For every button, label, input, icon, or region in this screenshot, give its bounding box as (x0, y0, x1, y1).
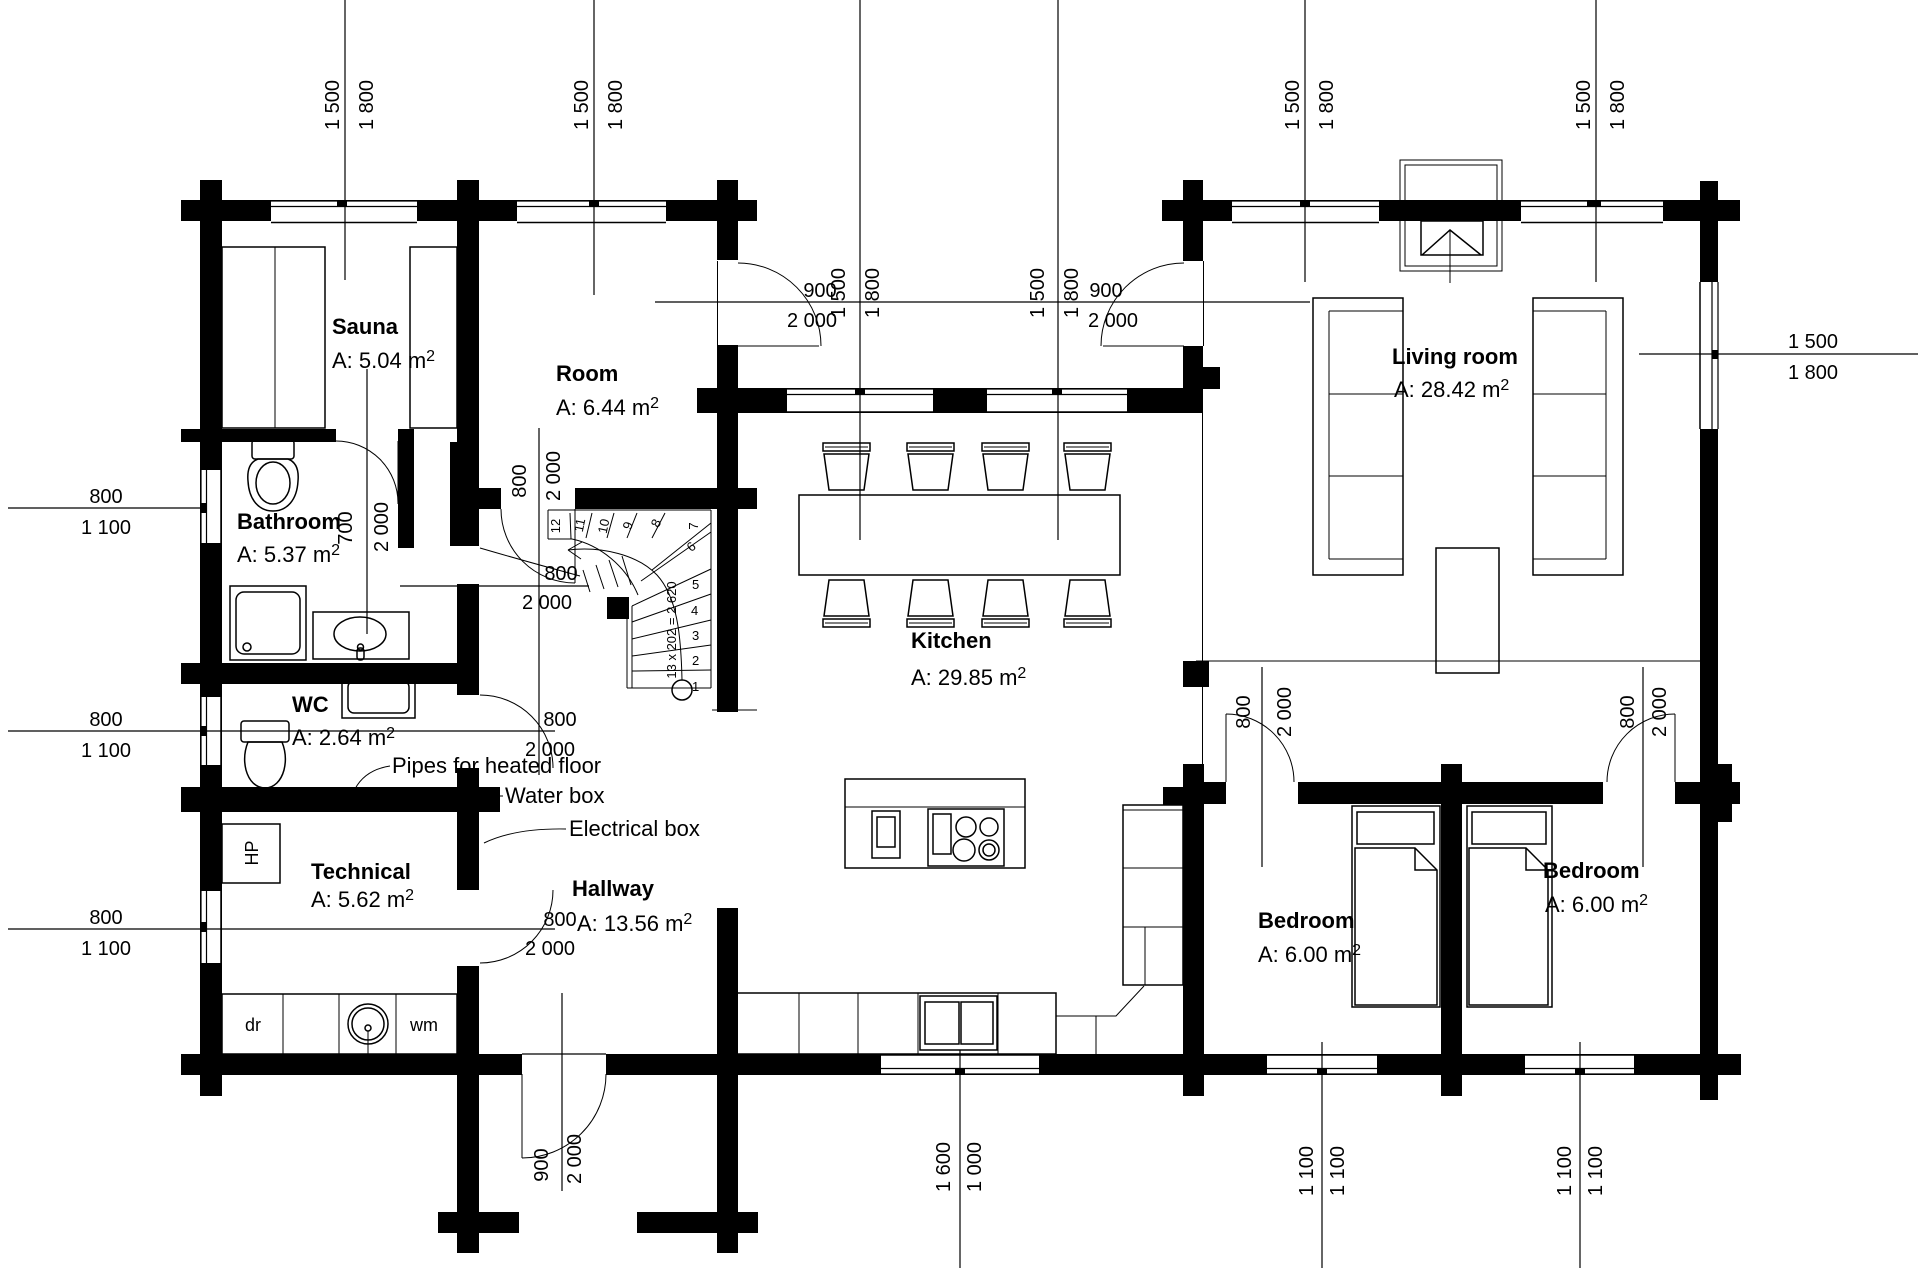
svg-text:2 000: 2 000 (1274, 687, 1296, 737)
kitchen counter corner piece (1056, 986, 1144, 1054)
stairs treads right run (632, 569, 711, 671)
wall: technical right wall lower + porch post (457, 966, 479, 1253)
wall: top exterior right block (1162, 200, 1740, 221)
wall: bedroom top wall segment B (1298, 782, 1603, 804)
fireplace (1400, 160, 1502, 283)
chair top 4 (1064, 443, 1111, 490)
toilet bathroom (248, 440, 298, 511)
DOORS (336, 261, 1675, 1158)
wall: bathroom divider lower (450, 442, 479, 546)
svg-text:1 100: 1 100 (81, 517, 131, 539)
window bedroom 2 (bottom wall) (1525, 1055, 1634, 1074)
STAIRS (548, 509, 711, 700)
wall: bathroom-WC wall (181, 663, 457, 684)
svg-text:dr: dr (245, 1015, 261, 1035)
door technical (480, 890, 553, 963)
window living room (right wall) (1699, 282, 1718, 429)
FURNITURE (222, 160, 1623, 1054)
svg-text:1 100: 1 100 (1327, 1146, 1349, 1196)
window WC (left wall) (201, 697, 221, 765)
wall: bottom exterior (181, 1054, 1741, 1075)
svg-text:WC: WC (292, 692, 329, 717)
island stove (928, 809, 1004, 866)
wall: hall/kitchen wall lower + porch post (717, 908, 738, 1253)
dim line window lr2 (1595, 0, 1597, 282)
svg-text:A: 29.85 m2: A: 29.85 m2 (911, 665, 1026, 690)
wall: porch right wall upper (1183, 221, 1203, 261)
wall: WC-technical wall (181, 787, 500, 812)
WINDOWS (201, 201, 1718, 1074)
svg-text:13 x 202 = 2 620: 13 x 202 = 2 620 (664, 581, 679, 678)
svg-text:A: 13.56 m2: A: 13.56 m2 (577, 911, 692, 936)
svg-text:2 000: 2 000 (1649, 687, 1671, 737)
stairs walk line (568, 549, 682, 680)
door leaf room at stairs (574, 509, 576, 583)
svg-text:Bedroom: Bedroom (1543, 858, 1640, 883)
stairs treads top run (570, 513, 665, 539)
kitchen tall cabinets (1123, 805, 1183, 985)
svg-text:800: 800 (89, 486, 122, 508)
wall: porch right face line (1203, 261, 1205, 346)
svg-text:2 000: 2 000 (525, 938, 575, 960)
svg-text:900: 900 (1089, 280, 1122, 302)
door room at stairs (501, 509, 575, 583)
wall: hall/kitchen wall top segment (717, 180, 738, 260)
wall: bedroom top wall segment C (1675, 782, 1740, 804)
dim line bedroom2 window (1579, 1042, 1581, 1268)
svg-text:Room: Room (556, 361, 618, 386)
dim line window room (593, 0, 595, 295)
svg-text:Bedroom: Bedroom (1258, 908, 1355, 933)
wall: kitchen top wall (697, 388, 1203, 413)
dim line bedroom2 door (1642, 667, 1644, 867)
svg-text:1 800: 1 800 (605, 80, 627, 130)
wall: kitchen/living junction square (1183, 661, 1209, 687)
svg-text:A: 6.00 m2: A: 6.00 m2 (1545, 892, 1648, 917)
svg-text:2: 2 (692, 653, 699, 668)
svg-text:900: 900 (531, 1148, 553, 1181)
svg-text:800: 800 (89, 907, 122, 929)
dim line bedroom1 window (1321, 1042, 1323, 1268)
dim line kitchen bottom window (959, 1050, 961, 1268)
wall: sauna/room divider (457, 180, 479, 488)
chair bottom 1 (823, 580, 870, 627)
stairs walk arrow (568, 542, 582, 559)
svg-text:800: 800 (509, 464, 531, 497)
open-plan boundary vertical (1202, 413, 1204, 764)
corner X bottom-left (201, 1054, 222, 1075)
wall: hall/kitchen wall mid segment (717, 345, 738, 712)
dim line left window WC (8, 730, 555, 732)
svg-text:Pipes for heated floor: Pipes for heated floor (392, 753, 601, 778)
wall: left exterior (200, 180, 222, 1096)
svg-text:1 600: 1 600 (933, 1142, 955, 1192)
svg-text:2 000: 2 000 (371, 502, 393, 552)
svg-text:5: 5 (692, 577, 699, 592)
dim line porch doors (655, 301, 1310, 303)
svg-text:1 800: 1 800 (1316, 80, 1338, 130)
wall: stair newel stub (607, 597, 629, 619)
svg-text:1 500: 1 500 (1788, 331, 1838, 353)
stairs start circle (672, 680, 692, 700)
svg-text:A: 5.37 m2: A: 5.37 m2 (237, 542, 340, 567)
svg-text:1 800: 1 800 (356, 80, 378, 130)
open-plan boundary horizontal (1196, 660, 1700, 662)
wall: porch crossbar right (637, 1212, 758, 1233)
chair bottom 3 (982, 580, 1029, 627)
svg-text:1 100: 1 100 (1554, 1146, 1576, 1196)
svg-text:1 100: 1 100 (81, 938, 131, 960)
svg-text:A: 6.44 m2: A: 6.44 m2 (556, 395, 659, 420)
svg-text:1 800: 1 800 (1607, 80, 1629, 130)
dim line bedroom1 door (1261, 667, 1263, 867)
svg-text:800: 800 (89, 709, 122, 731)
sauna bench right (410, 247, 457, 428)
door bedroom 2 (1607, 714, 1675, 782)
svg-text:7: 7 (686, 522, 701, 529)
svg-text:4: 4 (691, 603, 698, 618)
svg-text:1 000: 1 000 (964, 1142, 986, 1192)
door porch right (to Living room) (1101, 263, 1184, 346)
svg-text:Bathroom: Bathroom (237, 509, 341, 534)
svg-text:1: 1 (692, 679, 699, 694)
svg-text:A: 5.04 m2: A: 5.04 m2 (332, 348, 435, 373)
svg-text:1 500: 1 500 (322, 80, 344, 130)
wall: porch right log stub (1203, 367, 1220, 389)
svg-text:2 000: 2 000 (543, 451, 565, 501)
door bathroom (shallow arc) (480, 548, 580, 576)
wall cap line (712, 709, 757, 711)
wall: porch right wall lower (1183, 346, 1203, 413)
wall: technical right wall mid (457, 768, 479, 890)
svg-text:800: 800 (1617, 695, 1639, 728)
svg-text:A: 5.62 m2: A: 5.62 m2 (311, 887, 414, 912)
HP heat pump (222, 824, 280, 883)
wall: bedroom divider (1441, 764, 1462, 1096)
svg-text:2 000: 2 000 (1088, 310, 1138, 332)
svg-text:1 100: 1 100 (1585, 1146, 1607, 1196)
wall: stairs top wall (575, 488, 757, 509)
kitchen counter bottom (737, 993, 1056, 1054)
svg-text:1 800: 1 800 (862, 268, 884, 318)
dim line right window (1639, 353, 1918, 355)
stairs outline (548, 510, 711, 688)
svg-text:1 500: 1 500 (1573, 80, 1595, 130)
stairs fan inner edge (572, 539, 638, 595)
window living room left (top wall) (1232, 201, 1379, 223)
window kitchen (bottom wall) (881, 1055, 1039, 1074)
coffee table (1436, 548, 1499, 673)
stairs winder diagonals (641, 523, 711, 581)
dim line kitchen window left (859, 0, 861, 540)
svg-text:10: 10 (595, 517, 613, 534)
dim line window lr1 (1304, 0, 1306, 282)
chair bottom 2 (907, 580, 954, 627)
stairs winder ticks (583, 556, 631, 592)
svg-text:1 100: 1 100 (1296, 1146, 1318, 1196)
technical counter dr/wm (222, 994, 457, 1054)
window kitchen wall right (987, 389, 1127, 412)
svg-text:A: 2.64 m2: A: 2.64 m2 (292, 725, 395, 750)
svg-text:wm: wm (409, 1015, 438, 1035)
dim line bathroom door 700 (366, 369, 368, 634)
svg-text:Technical: Technical (311, 859, 411, 884)
svg-text:800: 800 (543, 709, 576, 731)
svg-text:800: 800 (543, 909, 576, 931)
wall: porch right log bar (1183, 180, 1203, 222)
wall: kitchen/bedroom wall (1183, 764, 1204, 1096)
svg-text:12: 12 (548, 519, 563, 533)
sink WC (342, 668, 415, 718)
window sauna (top wall) (271, 201, 417, 223)
corner X top-left (201, 200, 222, 221)
svg-text:Kitchen: Kitchen (911, 628, 992, 653)
chair top 1 (823, 443, 870, 490)
dining table (799, 495, 1120, 575)
kitchen island (845, 779, 1025, 868)
toilet WC (241, 721, 289, 788)
svg-text:1 800: 1 800 (1788, 362, 1838, 384)
wall: right exterior (1700, 181, 1718, 1100)
svg-text:800: 800 (544, 563, 577, 585)
door bedroom 1 (1226, 714, 1294, 782)
wall: bathroom right stub (398, 429, 414, 548)
wall: sauna-bathroom wall (181, 429, 336, 442)
chair top 3 (982, 443, 1029, 490)
bed 1 (1352, 806, 1440, 1007)
window bedroom 1 (bottom wall) (1267, 1055, 1377, 1074)
svg-text:Living room: Living room (1392, 344, 1518, 369)
window living room right (top wall) (1521, 201, 1663, 223)
shower bathroom (230, 586, 306, 660)
island sink (872, 811, 900, 858)
svg-text:Electrical box: Electrical box (569, 816, 700, 841)
WALLS (181, 180, 1741, 1253)
sofa left (1313, 298, 1403, 575)
svg-text:A: 28.42 m2: A: 28.42 m2 (1394, 377, 1509, 402)
dim line front door (561, 993, 563, 1191)
svg-text:Water box: Water box (505, 783, 604, 808)
dim line stairs door horizontal (400, 585, 589, 587)
svg-text:Hallway: Hallway (572, 876, 655, 901)
wall: technical right wall upper (457, 584, 479, 695)
door sauna (336, 441, 398, 504)
wall: porch crossbar left (438, 1212, 519, 1233)
svg-text:3: 3 (692, 628, 699, 643)
door porch left (to Room) (718, 261, 822, 346)
svg-text:2 000: 2 000 (564, 1134, 586, 1184)
dim line kitchen window right (1057, 0, 1059, 540)
dim line left window technical (8, 928, 555, 930)
sofa right (1533, 298, 1623, 575)
dim line left window bathroom (8, 507, 201, 509)
window technical (left wall) (201, 891, 221, 963)
wall: bedroom top wall segment A (1183, 782, 1226, 804)
svg-text:1 500: 1 500 (1027, 268, 1049, 318)
svg-text:1 500: 1 500 (571, 80, 593, 130)
svg-text:Sauna: Sauna (332, 314, 399, 339)
sauna bench left (222, 247, 325, 428)
sink bathroom (313, 612, 409, 660)
svg-text:2 000: 2 000 (522, 592, 572, 614)
wall: right wall log bar at bedroom junction (1711, 764, 1732, 822)
dim line window sauna (344, 0, 346, 280)
svg-text:1 500: 1 500 (1282, 80, 1304, 130)
wall: top exterior left block (181, 200, 757, 221)
svg-text:800: 800 (1233, 695, 1255, 728)
window bathroom (left wall) (201, 470, 221, 543)
window room (top wall) (517, 201, 666, 223)
kitchen sink bottom (920, 996, 997, 1050)
svg-text:2 000: 2 000 (787, 310, 837, 332)
door front entrance (522, 1054, 606, 1158)
svg-text:1 800: 1 800 (1061, 268, 1083, 318)
svg-text:1 100: 1 100 (81, 740, 131, 762)
svg-text:900: 900 (803, 280, 836, 302)
wall: bedroom wall stub left (1163, 787, 1183, 805)
svg-text:A: 6.00 m2: A: 6.00 m2 (1258, 942, 1361, 967)
chair top 2 (907, 443, 954, 490)
chair bottom 4 (1064, 580, 1111, 627)
dim line room door 800 vertical (538, 428, 540, 775)
wall: stairs door jamb (479, 488, 501, 509)
bed 2 (1467, 806, 1552, 1007)
window kitchen wall left (787, 389, 933, 412)
door WC (480, 695, 553, 768)
svg-text:HP: HP (242, 840, 262, 865)
